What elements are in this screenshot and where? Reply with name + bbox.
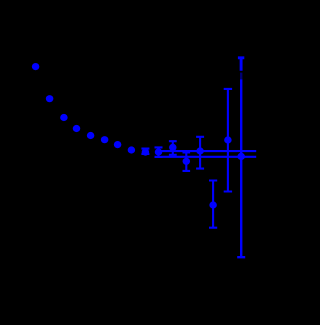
data point P12 bbox=[183, 158, 191, 165]
data point P16 (low outlier) bbox=[209, 201, 217, 208]
error bar P15 vertical lower solid segment with bottom cap bbox=[237, 79, 245, 257]
data point P7 bbox=[114, 141, 122, 148]
horizontal error bar of P15 (y=156.8) bbox=[155, 156, 257, 158]
data point P14 (high outlier) bbox=[224, 136, 232, 143]
data point P3 bbox=[60, 114, 68, 121]
error bar P9 vertical (x=145.4) small, mostly hidden bbox=[141, 149, 149, 154]
error bar P13 vertical (x=200.1) with caps bbox=[196, 137, 204, 169]
data point P13 bbox=[196, 147, 204, 154]
data point P15 bbox=[237, 153, 245, 160]
error bar P15 vertical faint middle segment bbox=[240, 73, 242, 80]
error bar P12 vertical (x=186.3) with caps bbox=[183, 152, 191, 171]
data point P6 bbox=[101, 136, 109, 143]
error bar P10 vertical (x=158.5) with caps bbox=[155, 147, 163, 157]
data point P1 bbox=[32, 63, 40, 70]
error bar P11 vertical (x=172.8) with caps bbox=[169, 141, 177, 155]
data point P11 bbox=[169, 144, 177, 151]
data point P4 bbox=[73, 125, 81, 132]
data point P9 bbox=[142, 149, 150, 156]
data point P2 bbox=[46, 95, 54, 102]
error bar P15 vertical (long, x=241.2) upper solid segment with top cap bbox=[238, 58, 244, 71]
error bar P16 vertical (low point, x=213.1) with caps bbox=[209, 181, 217, 228]
data point P10 bbox=[155, 148, 163, 155]
horizontal error bar of P13 (y=151.1) bbox=[158, 150, 256, 152]
data point P5 bbox=[87, 132, 95, 139]
error bar P14 vertical (x=227.9) with caps bbox=[224, 89, 232, 192]
data point P8 bbox=[128, 146, 136, 153]
